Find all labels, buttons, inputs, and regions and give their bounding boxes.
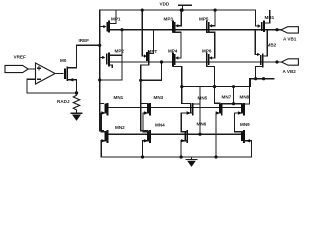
transistor MN8: [234, 79, 249, 132]
svg-text:MN3: MN3: [154, 95, 164, 100]
svg-text:MP3: MP3: [164, 17, 174, 22]
svg-text:MN6: MN6: [197, 122, 207, 127]
ground main: [186, 157, 197, 167]
node MP6 drain on sum bus: [213, 85, 216, 88]
node MN8 gate junction: [232, 102, 235, 105]
node IREF junction: [98, 44, 101, 47]
transistor MB1: [256, 10, 270, 32]
node MB2 drain on node wire: [254, 77, 257, 80]
transistor MP4 (mirrored): [173, 52, 191, 103]
transistor MN9: [234, 130, 251, 157]
wire feedback loop: [27, 79, 77, 93]
node rail MN7 source: [214, 155, 217, 158]
wire gate bus x=141: [141, 10, 143, 56]
wire bottom rail y=157: [101, 156, 251, 158]
transistor MN7: [216, 103, 234, 157]
resistor RADJ: [73, 93, 79, 113]
node MP2 source on VB1 bus: [120, 28, 123, 31]
node sum bus left: [180, 85, 183, 88]
transistor MP6 (mirrored): [207, 52, 220, 103]
node MP5 gate on top bus: [214, 9, 217, 12]
node MN7 drain on sum bus: [232, 85, 235, 88]
svg-text:MN9: MN9: [240, 122, 250, 127]
node M0 source / RADJ: [75, 91, 78, 94]
node MP3 gate on top bus: [180, 9, 183, 12]
transistor MN5: [181, 103, 200, 131]
transistor MP5 (mirrored): [207, 10, 215, 58]
transistor MP3 (mirrored): [173, 10, 181, 58]
wire VB1 bus y=29.7: [109, 29, 281, 31]
wire op-amp output to M0 gate: [55, 73, 63, 75]
port A VB2: [282, 59, 299, 65]
wire MN5 drain to row2 bus: [199, 87, 201, 135]
wire NMOS row2 gate bus y=136.6: [107, 133, 242, 135]
svg-text:VDD: VDD: [160, 1, 170, 6]
transistor MN3: [143, 103, 150, 132]
svg-text:VREF: VREF: [14, 55, 26, 60]
svg-text:MN4: MN4: [155, 123, 165, 128]
node MB2 drain: [262, 77, 265, 80]
svg-text:MN1: MN1: [114, 95, 124, 100]
port A VB1: [281, 27, 298, 33]
node rail MN6 source: [180, 155, 183, 158]
transistor MPT: [141, 30, 154, 131]
wire NMOS row1 gate bus y=107.6: [107, 107, 242, 109]
transistor M0: [65, 67, 77, 82]
node MB1 drain to port VB1: [275, 28, 278, 31]
svg-text:M0: M0: [60, 58, 67, 63]
transistor MN4: [143, 130, 151, 157]
node tap on VB2 bus: [160, 60, 163, 63]
svg-text:IREF: IREF: [79, 38, 90, 43]
wire MN3 gate bus y=80.3: [141, 62, 162, 80]
wire VB2 bus y=62: [109, 61, 282, 63]
node port2 junction on VB2: [275, 60, 278, 63]
transistor MN1: [100, 103, 108, 132]
transistor MP1: [100, 10, 116, 33]
svg-text:A VB1: A VB1: [283, 37, 297, 42]
wire VREF to op-amp: [28, 68, 35, 70]
wire MP2 source up / drain down x=122: [100, 30, 122, 80]
svg-text:MP2: MP2: [115, 49, 125, 54]
op-amp U1: [36, 63, 56, 84]
wire M0 source down: [76, 80, 78, 93]
power VDD symbol: [179, 5, 192, 12]
wire MN7 drain to sum bus and MN8 gate: [234, 87, 243, 104]
transistor MN2: [101, 130, 107, 157]
svg-text:A VB2: A VB2: [283, 69, 297, 74]
svg-text:MB2: MB2: [267, 42, 277, 47]
svg-text:MN8: MN8: [240, 95, 250, 100]
port VREF input: [5, 65, 28, 72]
wire M0 drain to IREF node: [77, 45, 100, 68]
svg-text:MN5: MN5: [198, 96, 208, 101]
node MP2 drain junction: [98, 78, 101, 81]
svg-text:MN7: MN7: [222, 95, 232, 100]
ground below RADJ: [71, 113, 82, 121]
wire top bus y=10: [100, 9, 256, 11]
node MPT drain bus: [139, 79, 142, 82]
transistor MP2: [100, 53, 122, 68]
node MN5 drain on row2 bus: [198, 133, 201, 136]
node rail MN4 source: [141, 155, 144, 158]
wire MB2 drain node y=78.7: [250, 78, 275, 80]
svg-text:RADJ: RADJ: [57, 99, 70, 104]
node bus x141 top: [141, 9, 144, 12]
svg-text:MN2: MN2: [115, 125, 125, 130]
wire left bus x=99.7: [100, 10, 104, 131]
transistor MN6: [181, 130, 187, 157]
transistor MB2: [255, 30, 267, 79]
wire sum bus y=86.6: [182, 79, 251, 87]
